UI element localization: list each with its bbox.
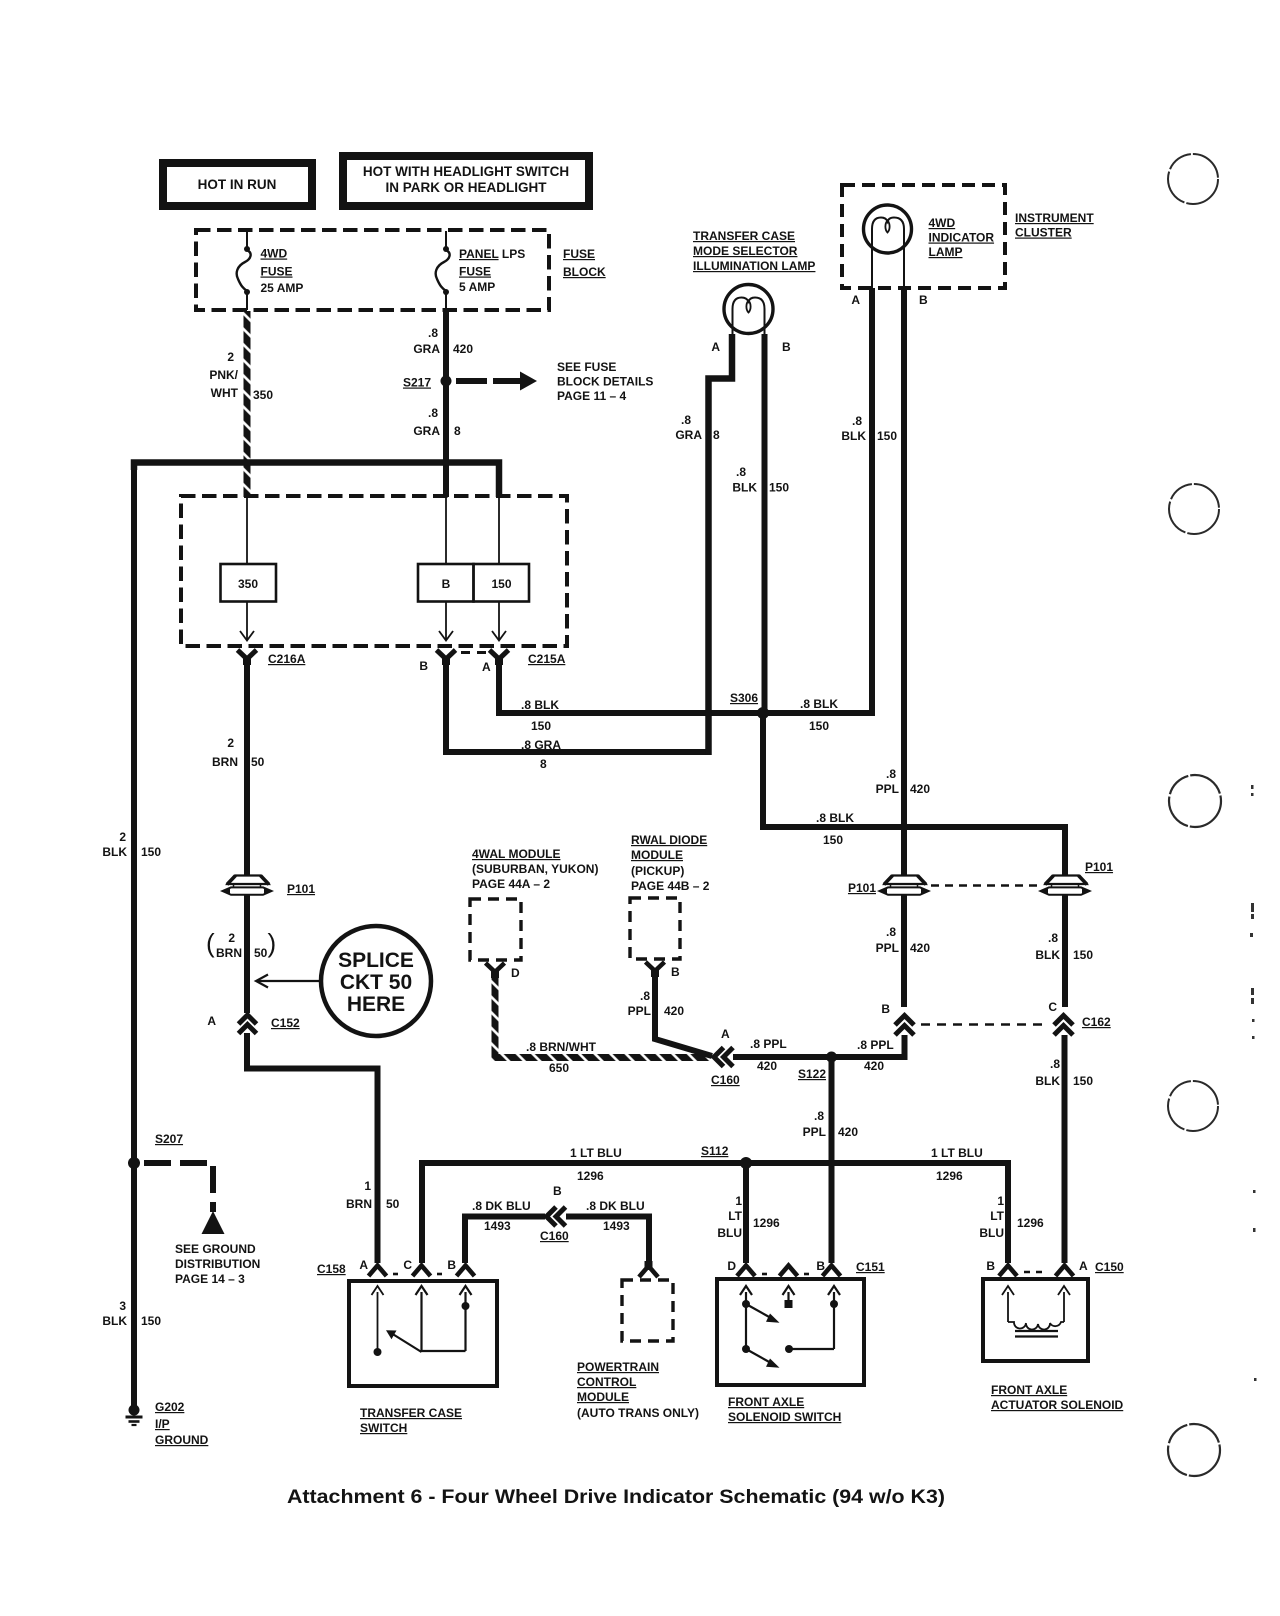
- wire S306 down-right .8 BLK: [763, 713, 1065, 875]
- wire S112 down to C151-D: [743, 1163, 749, 1263]
- svg-text:A: A: [1079, 1259, 1088, 1273]
- svg-text:ILLUMINATION LAMP: ILLUMINATION LAMP: [693, 259, 815, 273]
- wire .8 BLK below right grommet: [1062, 895, 1068, 1007]
- switch C151 FRONT AXLE SOLENOID SWITCH box: [717, 1279, 864, 1385]
- svg-text:LT: LT: [728, 1209, 742, 1223]
- label POWERTRAIN CONTROL MODULE (AUTO TRANS ONLY): [577, 1360, 699, 1420]
- svg-text:INDICATOR: INDICATOR: [929, 231, 995, 245]
- wire thin feed to B box: [445, 497, 447, 564]
- label TRANSFER CASE MODE SELECTOR ILLUMINATION LAMP: [693, 229, 815, 273]
- label 1 LT BLU 1296 left: [570, 1146, 622, 1183]
- fuse block details dashed box: [181, 496, 567, 646]
- svg-text:B: B: [816, 1259, 825, 1273]
- label FRONT AXLE ACTUATOR SOLENOID: [991, 1383, 1124, 1412]
- svg-text:2: 2: [119, 830, 126, 844]
- splice S112: [740, 1157, 752, 1169]
- svg-text:HOT IN RUN: HOT IN RUN: [198, 177, 277, 192]
- svg-text:S207: S207: [155, 1132, 183, 1146]
- svg-text:420: 420: [910, 941, 930, 955]
- svg-text:S306: S306: [730, 691, 758, 705]
- ground G202 symbol: [126, 1405, 143, 1426]
- svg-text:MODULE: MODULE: [577, 1390, 629, 1404]
- svg-text:A: A: [721, 1027, 730, 1041]
- svg-text:420: 420: [453, 342, 473, 356]
- svg-text:4WD: 4WD: [929, 216, 956, 230]
- svg-text:PAGE 44A – 2: PAGE 44A – 2: [472, 877, 550, 891]
- svg-text:1296: 1296: [1017, 1216, 1044, 1230]
- svg-text:BLOCK: BLOCK: [563, 265, 606, 279]
- label 1 BRN 50: [346, 1179, 400, 1211]
- label 2 PNK/WHT 350: [209, 350, 273, 402]
- module RWAL dashed box: [630, 898, 680, 959]
- svg-text:FUSE: FUSE: [563, 247, 595, 261]
- label FUSE BLOCK: [563, 247, 606, 279]
- svg-text:C160: C160: [711, 1073, 740, 1087]
- svg-text:A: A: [482, 660, 491, 674]
- svg-text:1296: 1296: [577, 1169, 604, 1183]
- svg-text:2: 2: [227, 736, 234, 750]
- svg-text:1493: 1493: [603, 1219, 630, 1233]
- svg-text:HOT WITH HEADLIGHT SWITCH: HOT WITH HEADLIGHT SWITCH: [363, 164, 569, 179]
- switch internals C151: [740, 1286, 840, 1368]
- label .8 BLK 150 on S306 branch: [816, 811, 854, 847]
- arrow from 150 box to C215A-A: [492, 602, 506, 641]
- punch hole 2: [1169, 484, 1219, 534]
- svg-text:(: (: [206, 928, 215, 958]
- svg-text:.8 BRN/WHT: .8 BRN/WHT: [526, 1040, 597, 1054]
- svg-text:PPL: PPL: [803, 1125, 826, 1139]
- svg-text:C158: C158: [317, 1262, 346, 1276]
- svg-text:A: A: [359, 1258, 368, 1272]
- connector C158 pin A: [369, 1266, 387, 1277]
- svg-text:150: 150: [141, 845, 161, 859]
- svg-text:150: 150: [823, 833, 843, 847]
- svg-text:WHT: WHT: [211, 386, 239, 400]
- svg-text:1 LT BLU: 1 LT BLU: [931, 1146, 983, 1160]
- svg-text:150: 150: [809, 719, 829, 733]
- label .8 GRA 8: [413, 406, 461, 438]
- svg-text:B: B: [553, 1184, 562, 1198]
- svg-text:.8 DK BLU: .8 DK BLU: [586, 1199, 645, 1213]
- svg-text:.8: .8: [428, 406, 438, 420]
- svg-text:BLU: BLU: [717, 1226, 742, 1240]
- svg-text:4WD: 4WD: [261, 247, 288, 261]
- svg-text:PPL: PPL: [876, 782, 899, 796]
- label 1 LT BLU 1296 vertical left: [717, 1194, 780, 1240]
- svg-text:BRN: BRN: [346, 1197, 372, 1211]
- label .8 GRA 420: [413, 326, 473, 356]
- svg-text:D: D: [727, 1259, 736, 1273]
- svg-text:50: 50: [386, 1197, 400, 1211]
- label .8 PPL 420 above P101: [876, 767, 931, 796]
- splice S207: [128, 1157, 140, 1169]
- connector C150 pin B: [999, 1266, 1017, 1277]
- splice note circle SPLICE CKT 50 HERE: [321, 926, 431, 1036]
- dashed link between grommets: [931, 884, 1040, 887]
- svg-text:MODE SELECTOR: MODE SELECTOR: [693, 244, 798, 258]
- svg-text:.8: .8: [852, 414, 862, 428]
- svg-text:SWITCH: SWITCH: [360, 1421, 407, 1435]
- wire 1 LT BLU 1296 main horizontal: [422, 1163, 1008, 1263]
- svg-text:.8: .8: [1050, 1057, 1060, 1071]
- svg-text:1: 1: [364, 1179, 371, 1193]
- connector C160 chevrons horizontal: [714, 1048, 733, 1067]
- wire .8 BLK 150 from C162-C to C150-A: [1062, 1035, 1068, 1263]
- svg-text:PNK/: PNK/: [209, 368, 238, 382]
- label .8 PPL 420 RWAL: [628, 989, 685, 1018]
- svg-text:SEE GROUND: SEE GROUND: [175, 1242, 256, 1256]
- wire transfer lamp B .8 BLK down to S306: [762, 334, 768, 713]
- svg-text:RWAL DIODE: RWAL DIODE: [631, 833, 707, 847]
- connector pin B of RWAL: [646, 962, 665, 977]
- svg-text:(PICKUP): (PICKUP): [631, 864, 684, 878]
- terminal box 150: [474, 564, 530, 602]
- label .8 PPL 420 right of S122: [857, 1038, 894, 1073]
- svg-text:A: A: [207, 1014, 216, 1028]
- svg-text:650: 650: [549, 1061, 569, 1075]
- svg-text:BRN: BRN: [212, 755, 238, 769]
- svg-text:1493: 1493: [484, 1219, 511, 1233]
- svg-text:8: 8: [713, 428, 720, 442]
- label 1 LT BLU 1296 right: [931, 1146, 983, 1183]
- label .8 BRN/WHT 650: [526, 1040, 597, 1075]
- svg-text:.8: .8: [886, 767, 896, 781]
- svg-text:.8: .8: [428, 326, 438, 340]
- connector C152 chevrons: [239, 1015, 257, 1034]
- connector C160 chevrons on DK BLU: [547, 1207, 566, 1226]
- switch C158 TRANSFER CASE SWITCH box: [349, 1281, 497, 1386]
- wire 2 BRN 50 below grommet: [244, 895, 250, 1013]
- svg-text:B: B: [671, 965, 680, 979]
- label FRONT AXLE SOLENOID SWITCH: [728, 1395, 841, 1424]
- label .8 BLK 150 below grommet: [1035, 931, 1093, 962]
- label RWAL DIODE MODULE (PICKUP) PAGE 44B-2: [631, 833, 710, 893]
- svg-text:(SUBURBAN, YUKON): (SUBURBAN, YUKON): [472, 862, 598, 876]
- connector pin D of 4WAL: [486, 963, 505, 978]
- svg-text:C: C: [1048, 1000, 1057, 1014]
- solenoid coil internals: [1002, 1286, 1070, 1337]
- svg-text:.8 BLK: .8 BLK: [800, 697, 838, 711]
- svg-text:FUSE: FUSE: [261, 265, 293, 279]
- label 3 BLK 150: [102, 1299, 161, 1328]
- svg-text:CLUSTER: CLUSTER: [1015, 226, 1072, 240]
- svg-text:1 LT BLU: 1 LT BLU: [570, 1146, 622, 1160]
- svg-text:): ): [268, 928, 277, 958]
- svg-text:D: D: [511, 966, 520, 980]
- svg-text:50: 50: [251, 755, 265, 769]
- svg-text:150: 150: [1073, 948, 1093, 962]
- svg-text:PPL: PPL: [628, 1004, 651, 1018]
- svg-text:150: 150: [531, 719, 551, 733]
- svg-text:.8 GRA: .8 GRA: [521, 738, 561, 752]
- svg-text:.8 BLK: .8 BLK: [816, 811, 854, 825]
- svg-text:8: 8: [540, 757, 547, 771]
- svg-text:C160: C160: [540, 1229, 569, 1243]
- connector C151 pin B: [823, 1266, 841, 1277]
- fuse F1 4WD FUSE 25 AMP: [237, 231, 251, 310]
- label .8 BLK 150 on lamp B wire: [732, 465, 789, 495]
- svg-text:2: 2: [228, 931, 235, 945]
- label G202 I/P GROUND: [155, 1400, 209, 1447]
- svg-text:I/P: I/P: [155, 1417, 170, 1431]
- svg-text:B: B: [919, 293, 928, 307]
- wire .8 PPL from C160 to S122: [733, 1054, 832, 1060]
- fuse F2 PANEL LPS FUSE 5 AMP: [436, 231, 450, 310]
- svg-text:HERE: HERE: [347, 993, 405, 1016]
- svg-text:350: 350: [238, 577, 258, 591]
- wire .8 PPL 420 from RWAL diagonal to C160: [655, 976, 712, 1056]
- svg-text:1296: 1296: [753, 1216, 780, 1230]
- svg-text:S217: S217: [403, 376, 431, 390]
- label PANEL LPS FUSE 5 AMP: [459, 247, 525, 294]
- connector C162 pin C chevrons: [1054, 1016, 1073, 1036]
- connector C158 pin C: [413, 1266, 431, 1277]
- label .8 DK BLU 1493 left: [472, 1199, 531, 1233]
- svg-text:B: B: [881, 1002, 890, 1016]
- svg-text:INSTRUMENT: INSTRUMENT: [1015, 211, 1094, 225]
- svg-text:P101: P101: [287, 882, 315, 896]
- svg-text:PAGE 44B – 2: PAGE 44B – 2: [631, 879, 710, 893]
- svg-text:LT: LT: [990, 1209, 1004, 1223]
- svg-text:B: B: [447, 1258, 456, 1272]
- wire CKT350 2 PNK/WHT hatched: [244, 311, 251, 497]
- dashed link C151 mid-B: [804, 1273, 814, 1276]
- svg-text:150: 150: [769, 481, 789, 495]
- svg-text:C152: C152: [271, 1016, 300, 1030]
- svg-text:25 AMP: 25 AMP: [261, 281, 304, 295]
- label .8 DK BLU 1493 right: [586, 1199, 645, 1233]
- svg-text:GRA: GRA: [413, 424, 440, 438]
- svg-text:TRANSFER CASE: TRANSFER CASE: [360, 1406, 462, 1420]
- label .8 PPL 420: [803, 1109, 859, 1139]
- svg-text:5 AMP: 5 AMP: [459, 280, 495, 294]
- splice S217: [441, 376, 452, 387]
- svg-text:BLK: BLK: [102, 1314, 127, 1328]
- svg-text:S122: S122: [798, 1067, 826, 1081]
- svg-text:P101: P101: [1085, 860, 1113, 874]
- svg-text:ACTUATOR SOLENOID: ACTUATOR SOLENOID: [991, 1398, 1124, 1412]
- dashed link C162 pins: [921, 1023, 1048, 1026]
- arrow from 350 box to C216A: [240, 602, 254, 641]
- connector C216A terminal: [238, 650, 257, 665]
- wire thin feed to 350 box: [246, 497, 248, 564]
- dashed link between C215A pins: [461, 651, 490, 654]
- svg-text:DISTRIBUTION: DISTRIBUTION: [175, 1257, 260, 1271]
- svg-text:POWERTRAIN: POWERTRAIN: [577, 1360, 659, 1374]
- svg-text:SOLENOID SWITCH: SOLENOID SWITCH: [728, 1410, 841, 1424]
- svg-text:.8: .8: [640, 989, 650, 1003]
- svg-text:.8: .8: [1048, 931, 1058, 945]
- svg-text:150: 150: [141, 1314, 161, 1328]
- punch hole 5: [1168, 1424, 1220, 1476]
- label 1 LT BLU 1296 vertical right: [979, 1194, 1044, 1240]
- lamp 4WD INDICATOR LAMP: [864, 205, 912, 288]
- svg-text:BLOCK DETAILS: BLOCK DETAILS: [557, 375, 653, 389]
- label ( 2 BRN 50 ): [206, 928, 276, 960]
- note SEE GROUND DISTRIBUTION PAGE 14-3: [175, 1242, 260, 1286]
- arrow from B box to C215A-B: [439, 602, 453, 641]
- svg-text:420: 420: [757, 1059, 777, 1073]
- module PCM dashed box: [622, 1280, 673, 1341]
- svg-text:BLK: BLK: [102, 845, 127, 859]
- wire dashed ground distribution branch: [144, 1163, 213, 1212]
- svg-text:PPL: PPL: [876, 941, 899, 955]
- svg-text:420: 420: [864, 1059, 884, 1073]
- wire main BLK vertical left: [131, 466, 137, 1407]
- wire cluster B .8 PPL down: [901, 288, 907, 1007]
- connector C158 pin B: [457, 1266, 475, 1277]
- svg-text:SEE FUSE: SEE FUSE: [557, 360, 616, 374]
- ground distribution triangle: [202, 1211, 225, 1234]
- svg-text:2: 2: [227, 350, 234, 364]
- svg-text:B: B: [419, 659, 428, 673]
- splice S306: [757, 707, 769, 719]
- scan noise marks right edge: [1250, 785, 1257, 1381]
- svg-text:3: 3: [119, 1299, 126, 1313]
- power feed box HOT WITH HEADLIGHT SWITCH: [343, 156, 589, 206]
- wire main feed horizontal y462: [134, 463, 499, 498]
- svg-text:P101: P101: [848, 881, 876, 895]
- dashed link C151 D-mid: [762, 1273, 772, 1276]
- wire 2 BRN 50 from C216A: [244, 662, 250, 875]
- svg-text:150: 150: [491, 577, 511, 591]
- svg-text:A: A: [711, 340, 720, 354]
- grommet P101 on PPL wire: [880, 876, 929, 895]
- svg-text:S112: S112: [701, 1144, 729, 1158]
- svg-text:.8 PPL: .8 PPL: [750, 1037, 787, 1051]
- connector C215A terminal A: [490, 650, 509, 665]
- svg-text:.8: .8: [736, 465, 746, 479]
- svg-text:C215A: C215A: [528, 652, 566, 666]
- svg-text:FUSE: FUSE: [459, 265, 491, 279]
- svg-text:GROUND: GROUND: [155, 1433, 209, 1447]
- label .8 BLK 150 right of S306: [800, 697, 838, 733]
- svg-text:1: 1: [997, 1194, 1004, 1208]
- svg-text:BLK: BLK: [841, 429, 866, 443]
- svg-text:BLU: BLU: [979, 1226, 1004, 1240]
- terminal box B: [418, 564, 474, 602]
- svg-text:CKT 50: CKT 50: [340, 971, 412, 994]
- svg-text:C: C: [403, 1258, 412, 1272]
- svg-text:BLK: BLK: [1035, 1074, 1060, 1088]
- svg-text:4WAL MODULE: 4WAL MODULE: [472, 847, 560, 861]
- label .8 BLK 150 on lamp A wire: [841, 414, 897, 443]
- splice S122: [826, 1052, 837, 1063]
- svg-text:.8: .8: [814, 1109, 824, 1123]
- svg-text:(AUTO TRANS ONLY): (AUTO TRANS ONLY): [577, 1406, 699, 1420]
- label .8 PPL 420 left segment: [750, 1037, 787, 1073]
- dashed link C158 C-B: [437, 1273, 447, 1276]
- connector C151 pin D: [737, 1266, 755, 1277]
- svg-text:350: 350: [253, 388, 273, 402]
- svg-text:150: 150: [877, 429, 897, 443]
- svg-text:1: 1: [735, 1194, 742, 1208]
- svg-text:420: 420: [664, 1004, 684, 1018]
- wire 1 BRN 50 from C152 to C158: [247, 1033, 378, 1263]
- label 4WAL MODULE (SUBURBAN, YUKON) PAGE 44A-2: [472, 847, 598, 891]
- label .8 GRA 8 on lamp A wire: [675, 413, 720, 442]
- grommet P101 on BLK wire: [1041, 876, 1090, 895]
- label TRANSFER CASE SWITCH: [360, 1406, 462, 1435]
- wire .8 DK BLU 1493 left segment: [465, 1217, 545, 1264]
- label .8 BLK 150 below C162: [1035, 1057, 1093, 1088]
- svg-text:FRONT AXLE: FRONT AXLE: [991, 1383, 1067, 1397]
- wire CKT420 .8 GRA vertical from fuse: [443, 311, 449, 497]
- svg-text:A: A: [851, 293, 860, 307]
- power feed box HOT IN RUN: [163, 163, 312, 206]
- svg-text:SPLICE: SPLICE: [338, 949, 414, 972]
- wire .8 DK BLU 1493 right segment to PCM: [566, 1217, 649, 1264]
- wire PPL from C162-B down to S122 horizontal: [832, 1035, 905, 1057]
- dashed link C158 A-C: [393, 1273, 403, 1276]
- svg-text:.8 PPL: .8 PPL: [857, 1038, 894, 1052]
- svg-text:BLK: BLK: [1035, 948, 1060, 962]
- label INSTRUMENT CLUSTER: [1015, 211, 1094, 240]
- connector pin of PCM: [639, 1261, 658, 1277]
- svg-text:Attachment 6 - Four Wheel Driv: Attachment 6 - Four Wheel Drive Indicato…: [287, 1486, 945, 1508]
- lamp TRANSFER CASE MODE SELECTOR ILLUMINATION LAMP: [724, 285, 773, 338]
- label 2 BLK 150: [102, 830, 161, 859]
- connector C215A terminal B: [437, 650, 456, 665]
- svg-text:50: 50: [254, 946, 268, 960]
- label 4WD INDICATOR LAMP: [929, 216, 995, 259]
- svg-text:GRA: GRA: [675, 428, 702, 442]
- svg-text:C162: C162: [1082, 1015, 1111, 1029]
- label .8 GRA 8 on horizontal: [521, 738, 561, 771]
- solenoid C150 FRONT AXLE ACTUATOR SOLENOID box: [983, 1279, 1088, 1361]
- svg-text:TRANSFER CASE: TRANSFER CASE: [693, 229, 795, 243]
- svg-text:.8: .8: [681, 413, 691, 427]
- wire thin feed to 150 box: [498, 497, 500, 564]
- svg-text:B: B: [986, 1259, 995, 1273]
- svg-text:FRONT AXLE: FRONT AXLE: [728, 1395, 804, 1409]
- svg-text:IN PARK OR HEADLIGHT: IN PARK OR HEADLIGHT: [386, 180, 548, 195]
- svg-text:C151: C151: [856, 1260, 885, 1274]
- label .8 PPL 420 below left grommet: [876, 925, 931, 955]
- wire transfer lamp A .8 GRA jog: [709, 334, 733, 755]
- connector C162 pin B chevrons: [895, 1016, 914, 1036]
- punch hole 4: [1168, 1081, 1218, 1131]
- wire C215A-A .8 BLK down and right to lamp A: [499, 288, 872, 713]
- svg-text:B: B: [782, 340, 791, 354]
- svg-text:PANEL LPS: PANEL LPS: [459, 247, 525, 261]
- svg-text:GRA: GRA: [413, 342, 440, 356]
- label 2 BRN 50: [212, 736, 265, 769]
- punch hole 3: [1169, 775, 1221, 827]
- arrow to fuse block details: [456, 372, 537, 391]
- svg-text:BRN: BRN: [216, 946, 242, 960]
- wire C215A-B .8 GRA down and right: [446, 662, 709, 752]
- grommet P101 on BRN wire: [223, 876, 272, 895]
- svg-text:1296: 1296: [936, 1169, 963, 1183]
- wire .8 BRN/WHT hatched from 4WAL: [492, 977, 711, 1061]
- svg-text:B: B: [442, 577, 451, 591]
- svg-text:BLK: BLK: [732, 481, 757, 495]
- wire .8 PPL 420 S122 down to C151-B: [829, 1057, 835, 1263]
- label .8 BLK 150 left of S306: [521, 698, 559, 733]
- svg-text:LAMP: LAMP: [929, 245, 963, 259]
- svg-text:C216A: C216A: [268, 652, 306, 666]
- svg-text:G202: G202: [155, 1400, 185, 1414]
- connector C151 middle pin: [780, 1266, 798, 1277]
- splice note arrow: [256, 975, 321, 988]
- fuse block dashed box: [196, 230, 549, 310]
- svg-text:420: 420: [910, 782, 930, 796]
- svg-text:150: 150: [1073, 1074, 1093, 1088]
- svg-text:8: 8: [454, 424, 461, 438]
- svg-text:PAGE 14 – 3: PAGE 14 – 3: [175, 1272, 245, 1286]
- switch internals C158: [372, 1286, 472, 1356]
